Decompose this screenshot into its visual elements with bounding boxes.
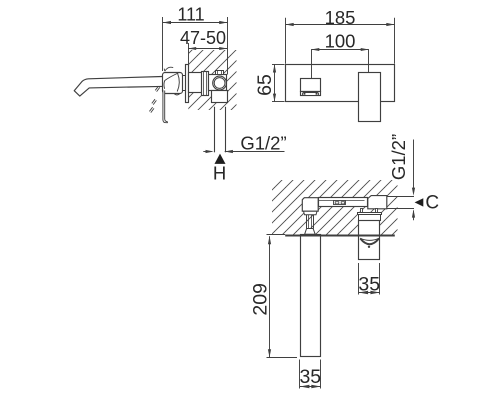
studs under valve box <box>361 209 363 213</box>
C reference lines <box>387 196 414 198</box>
wall hatch (plan view) <box>272 180 398 235</box>
dimension 111 <box>162 17 164 71</box>
svg-text:47-50: 47-50 <box>180 28 226 48</box>
lower housing box <box>212 91 228 103</box>
svg-text:111: 111 <box>177 4 204 24</box>
handle knob (side view) <box>163 73 183 94</box>
cartridge flange <box>202 72 209 96</box>
handle front <box>359 73 381 122</box>
mounting stud <box>306 215 308 229</box>
handle body (plan) <box>359 221 380 260</box>
handle end cap crescent <box>360 238 379 240</box>
valve box (plan) <box>368 196 387 209</box>
svg-text:100: 100 <box>325 31 356 52</box>
dimension 100 <box>311 50 313 79</box>
spout tube (plan) <box>301 235 321 357</box>
spout (side view) <box>74 77 162 97</box>
G1/2 arrows (side view) <box>203 151 212 153</box>
elbow flange <box>304 211 318 215</box>
dimension 47-50 <box>188 48 227 50</box>
wall hatch (side view) <box>188 50 236 110</box>
svg-text:185: 185 <box>325 7 356 28</box>
dimension 35 (spout) <box>299 360 301 389</box>
cartridge housing box <box>209 75 227 91</box>
svg-text:G1/2”: G1/2” <box>240 132 286 153</box>
svg-text:65: 65 <box>254 74 276 96</box>
spout outlet front <box>301 79 321 92</box>
knob neck <box>182 75 186 77</box>
fitting on top of housing <box>216 71 224 75</box>
spout elbow box (plan) <box>302 198 318 212</box>
handle screw dot <box>368 246 370 248</box>
G1/2 leader arrow <box>413 140 415 192</box>
handle flange (plan) <box>358 213 382 215</box>
pivot tick marks <box>157 87 160 91</box>
wire: wall face line side view <box>188 43 190 65</box>
valve circle <box>213 76 227 90</box>
svg-text:G1/2”: G1/2” <box>388 134 409 180</box>
supply pipe (side view) <box>214 107 216 153</box>
dimension 209 <box>267 357 298 359</box>
svg-text:H: H <box>213 163 226 184</box>
mounting plate front <box>286 65 395 102</box>
svg-text:35: 35 <box>358 274 380 296</box>
dimension 65 <box>272 64 285 66</box>
main tube (plan) <box>319 198 368 207</box>
handle lever <box>163 90 168 123</box>
C pointer triangle <box>415 198 424 206</box>
nub under knob <box>174 94 179 95</box>
wall face thick line <box>285 234 395 236</box>
valve body tube in wall <box>189 73 203 93</box>
datum triangle H <box>215 154 226 164</box>
svg-text:209: 209 <box>250 283 272 316</box>
C dimension arrow <box>413 211 415 221</box>
svg-text:C: C <box>425 193 439 214</box>
indicator slot on tube <box>334 201 346 205</box>
svg-text:35: 35 <box>299 366 321 388</box>
handle motion arc <box>164 67 173 71</box>
dimension 185 <box>285 18 287 64</box>
dimension 35 (handle) <box>358 263 360 295</box>
escutcheon plate (side view) <box>186 65 189 103</box>
